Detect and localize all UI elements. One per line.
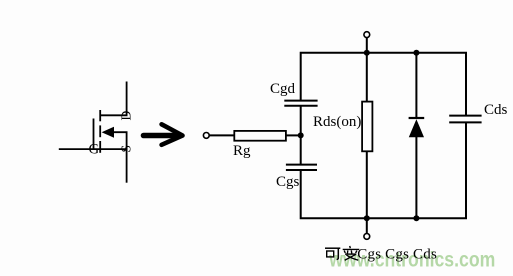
svg-text:Cgs Cgs Cds: Cgs Cgs Cds bbox=[357, 246, 437, 262]
transform arrow bbox=[144, 124, 183, 145]
wire drain stub bbox=[100, 82, 126, 116]
caption chinese 变 bbox=[343, 246, 360, 260]
node junction dot top Rds bbox=[364, 50, 370, 56]
gate bar bbox=[93, 119, 95, 151]
capacitor Cgd bbox=[284, 101, 317, 106]
wire source stub bbox=[94, 148, 128, 150]
wire Rds branch lower bbox=[366, 151, 368, 218]
wire Rds branch upper bbox=[366, 53, 368, 102]
wire Rg to node bbox=[286, 134, 301, 136]
resistor Rds(on) bbox=[362, 102, 372, 152]
svg-text:G: G bbox=[89, 142, 100, 158]
wire input lead bbox=[209, 134, 234, 136]
wire top rail with left and right branches bbox=[301, 53, 466, 115]
wire diode branch lower bbox=[415, 137, 417, 218]
diode D1 cathode bar bbox=[409, 117, 425, 119]
svg-text:S: S bbox=[118, 145, 133, 153]
channel segment bottom bbox=[99, 141, 101, 153]
diode D1 triangle bbox=[409, 119, 424, 137]
svg-text:Cgd: Cgd bbox=[270, 81, 296, 97]
wire source lead bbox=[126, 149, 128, 183]
terminal top (open circle) bbox=[364, 32, 370, 38]
node junction dot top diode bbox=[413, 50, 419, 56]
wire bottom terminal stub bbox=[366, 218, 368, 233]
svg-text:Cgs: Cgs bbox=[276, 174, 300, 190]
wire gate lead bbox=[59, 148, 94, 150]
transistor Q1 (MOSFET symbol) bbox=[59, 82, 128, 183]
svg-text:Rds(on): Rds(on) bbox=[313, 114, 361, 130]
channel segment top bbox=[99, 110, 101, 121]
svg-text:Cds: Cds bbox=[484, 102, 508, 118]
channel segment middle bbox=[99, 125, 101, 137]
wire body and arrow link bbox=[113, 132, 127, 149]
wire left branch middle (Cgd to Cgs) bbox=[300, 106, 302, 165]
svg-text:D: D bbox=[118, 110, 133, 120]
wire bottom rail with left and right branches bbox=[301, 123, 466, 218]
equivalent circuit wires bbox=[209, 37, 466, 233]
resistor Rg bbox=[234, 131, 286, 141]
body arrow of Q1 bbox=[102, 127, 114, 138]
terminal input (open circle) bbox=[203, 133, 209, 139]
node junction dot bottom diode bbox=[413, 215, 419, 221]
node junction dot bottom Rds bbox=[364, 215, 370, 221]
wire diode branch upper bbox=[415, 53, 417, 118]
capacitor Cds bbox=[449, 116, 481, 123]
wire top terminal stub bbox=[366, 37, 368, 52]
terminal bottom (open circle) bbox=[364, 234, 370, 240]
svg-text:Rg: Rg bbox=[233, 143, 251, 159]
node junction dot at Rg/Cgd/Cgs bbox=[298, 132, 304, 138]
caption chinese 可 bbox=[325, 248, 340, 259]
capacitor Cgs bbox=[286, 165, 317, 170]
